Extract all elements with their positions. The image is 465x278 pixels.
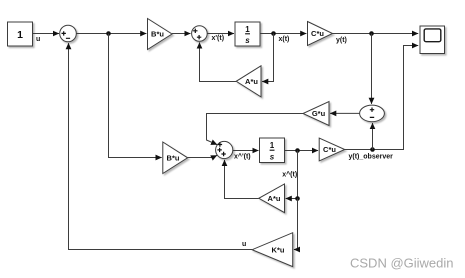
node x^(t) junction <box>295 148 300 153</box>
svg-text:C*u: C*u <box>323 145 336 154</box>
gain K K*u <box>252 233 293 267</box>
node u junction <box>106 31 111 36</box>
wire S4 to integrator I2 <box>233 150 259 152</box>
gain C2 C*u <box>319 138 345 161</box>
svg-text:A*u: A*u <box>245 77 258 86</box>
wire y(t) junction down to sum S3 plus input <box>371 34 373 104</box>
wire observer junction up to sum S3 minus input <box>372 123 374 150</box>
svg-text:y(t)_observer: y(t)_observer <box>349 153 394 160</box>
svg-text:y(t): y(t) <box>336 37 347 44</box>
wire B1 to sum S2 <box>172 33 191 35</box>
wire u junction down to gain B2 <box>109 34 162 158</box>
constant block "1" <box>8 22 33 46</box>
wire K to sum S1 minus input <box>69 43 253 249</box>
wire S1 to gain B1 <box>76 33 146 35</box>
wire G to sum S4 top-left input <box>207 114 304 145</box>
wire I2 to gain C2 <box>285 150 319 152</box>
svg-text:B*u: B*u <box>167 153 180 162</box>
svg-text:C*u: C*u <box>311 29 324 38</box>
sum S4 <box>216 141 233 158</box>
svg-text:B*u: B*u <box>151 30 164 39</box>
svg-text:CSDN @Giiwedin: CSDN @Giiwedin <box>350 256 454 271</box>
svg-text:x^(t): x^(t) <box>282 170 297 178</box>
gain B1 B*u <box>148 19 173 50</box>
node x(t) junction <box>271 31 276 36</box>
wire C2 to scope input 2 <box>345 46 419 150</box>
svg-text:A*u: A*u <box>268 194 281 203</box>
svg-text:1: 1 <box>270 141 275 150</box>
svg-text:x'(t): x'(t) <box>212 35 225 42</box>
wire B2 to sum S4 lower-left input <box>188 155 217 157</box>
wire S2 to integrator I1 <box>207 33 234 35</box>
wire C1 to scope input 1 <box>333 33 419 35</box>
svg-text:x(t): x(t) <box>279 36 290 43</box>
integrator I2 1/s <box>260 138 285 163</box>
svg-text:1: 1 <box>245 25 250 34</box>
gain B2 B*u <box>163 142 188 174</box>
node x^ lower junction <box>295 196 300 201</box>
svg-text:u: u <box>36 36 40 43</box>
gain A1 A*u <box>236 66 261 97</box>
wire x^ lower junction down to gain K <box>294 199 298 250</box>
gain G G*u <box>303 102 329 126</box>
wire A2 to sum S4 bottom input <box>225 160 259 199</box>
sum S2 <box>192 26 208 42</box>
sum S3 (comparator) <box>360 105 385 122</box>
wire x(t) junction down to gain A1 <box>262 34 273 82</box>
svg-text:1: 1 <box>17 29 23 41</box>
svg-text:u: u <box>242 241 246 248</box>
svg-text:s: s <box>245 36 250 45</box>
gain C1 C*u <box>308 22 333 46</box>
wire I1 to gain C1 <box>260 33 306 35</box>
svg-text:G*u: G*u <box>312 109 326 118</box>
svg-text:x^'(t): x^'(t) <box>234 153 251 161</box>
sum S1 <box>60 25 77 42</box>
node y(t) junction <box>369 31 374 36</box>
svg-text:K*u: K*u <box>272 246 285 255</box>
scope block <box>420 26 445 54</box>
node y observer junction <box>370 147 375 152</box>
integrator I1 1/s <box>235 22 260 46</box>
wire x^ junction down to gain A2 <box>286 151 298 199</box>
wire A1 to sum S2 bottom input <box>200 42 237 81</box>
gain A2 A*u <box>259 184 285 213</box>
wire constant to sum S1 <box>33 33 60 35</box>
wire S3 to gain G <box>330 112 360 114</box>
svg-text:s: s <box>270 152 275 161</box>
